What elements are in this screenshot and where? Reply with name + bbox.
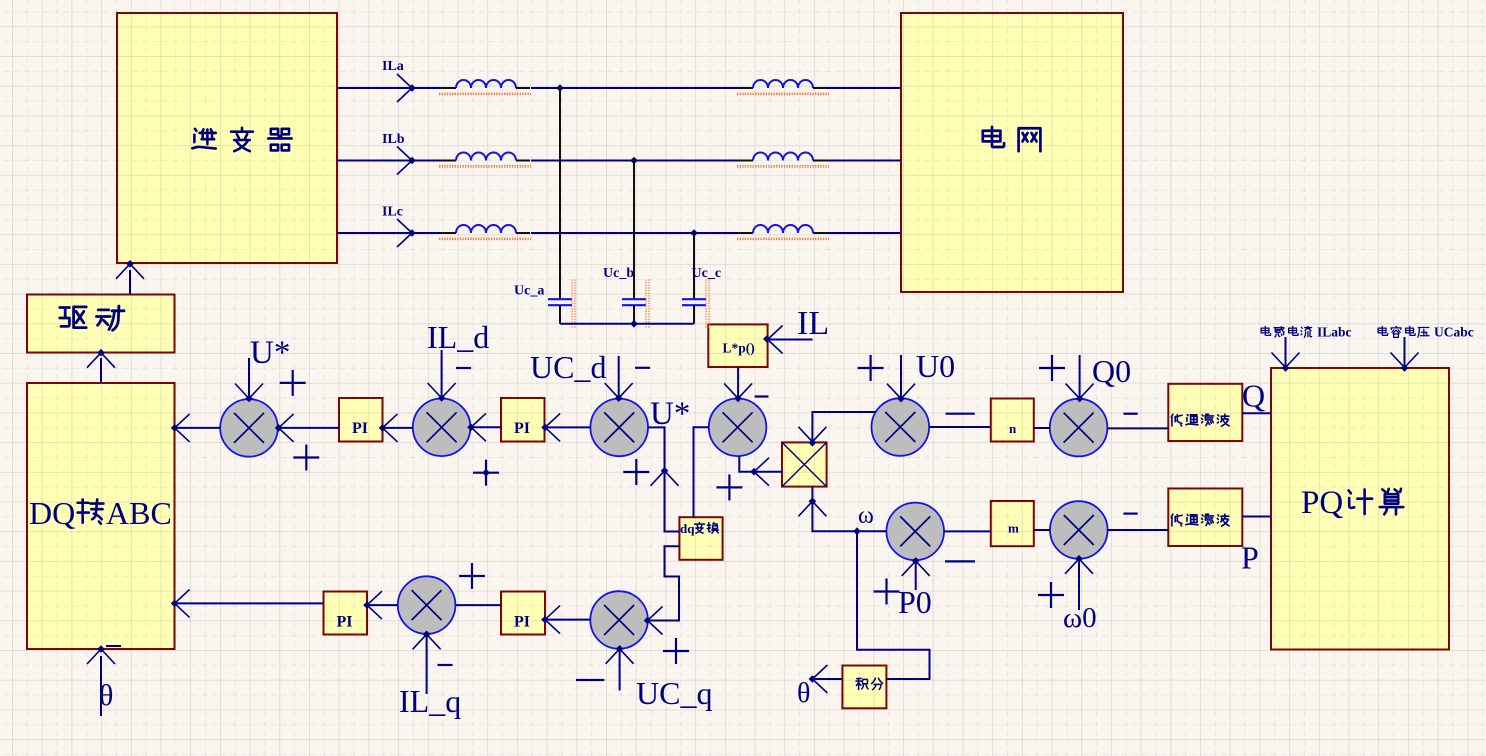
summing junction S7 omega sum <box>886 503 944 561</box>
label inverter text ni-bian-qi <box>192 128 291 151</box>
svg-text:DQ: DQ <box>29 495 75 531</box>
arrow ILabc into PQ <box>1272 353 1300 368</box>
svg-text:dq: dq <box>680 521 695 536</box>
summing junction S2 IL_d sum <box>413 399 471 457</box>
arrow into M1 top <box>798 427 826 442</box>
plus at S4 lower <box>716 474 742 500</box>
inductor LC2 right lead <box>813 232 827 234</box>
summing junction S8 omega0 sum <box>1050 501 1108 559</box>
junction dot S3 top <box>615 394 623 402</box>
junction dot S10 right <box>644 617 652 625</box>
block power grid (dian wang) fill <box>901 13 1123 292</box>
minus at S2 input <box>456 367 471 369</box>
block L*p() derivative border <box>708 324 767 367</box>
junction dot DQ lower input <box>171 600 179 608</box>
wire PQ Q output to low-pass 1 <box>1242 412 1271 414</box>
wire PI2 to S2 <box>470 426 501 428</box>
wire IL_q input to S9 <box>426 635 428 694</box>
svg-text:Q: Q <box>1242 378 1265 414</box>
wire phase B from inverter <box>337 160 412 162</box>
svg-text:ILabc: ILabc <box>1317 325 1352 340</box>
svg-text:Q0: Q0 <box>1092 353 1131 389</box>
inductor LA2 coil <box>753 80 813 88</box>
inductor LA1 right lead <box>516 87 530 89</box>
plus at S5 upper <box>858 355 884 381</box>
junction dot S8 bottom <box>1075 555 1083 563</box>
svg-text:UC_d: UC_d <box>530 349 606 385</box>
minus at S9 input <box>438 664 453 666</box>
wire IL input to L*p() <box>768 339 813 341</box>
arrow into drive <box>87 353 115 368</box>
svg-text:ω0: ω0 <box>1063 602 1097 634</box>
wire S5 to gain n <box>929 426 991 428</box>
label PQ ji-suan glyphs <box>1349 489 1404 514</box>
label drive text qu-dong <box>60 306 124 330</box>
block integrator (ji fen) border <box>842 666 886 709</box>
gain block m border <box>991 501 1034 546</box>
label dq transform bian-huan glyphs <box>694 522 718 533</box>
inductor LC1 left lead <box>440 232 456 234</box>
inductor LA2 orange underline <box>737 92 829 94</box>
minus tick at DQ bottom <box>106 645 121 647</box>
wire capacitor Uc_c top lead <box>693 233 695 299</box>
junction dot omega node <box>853 527 861 535</box>
inductor LA1 left lead <box>440 87 456 89</box>
plus at S1 lower <box>293 445 319 471</box>
junction dot S9 bottom <box>423 631 431 639</box>
gain block PI4 border <box>501 592 545 635</box>
block inverter (ni bian qi) fill <box>117 13 337 263</box>
junction dot phase C capacitor tap <box>690 229 698 237</box>
junction dot S10 bottom <box>616 645 624 653</box>
junction dot M1 bottom <box>809 498 817 506</box>
junction dot DQ upper input <box>171 424 179 432</box>
junction dot S5 top <box>897 395 905 403</box>
label DQ-to-ABC zhuan glyph <box>78 499 104 523</box>
junction dot rail <box>630 320 638 328</box>
arrow into PI2 <box>545 413 560 441</box>
arrow phase B <box>397 147 412 175</box>
inductor LB2 right lead <box>813 160 827 162</box>
wire L*p() output to S4 <box>737 367 739 399</box>
capacitor Uc_b <box>622 299 646 305</box>
wire theta input to DQ-to-ABC <box>100 656 102 716</box>
inductor LA1 orange underline <box>439 92 531 94</box>
summing junction S1 U* sum <box>220 399 278 457</box>
svg-text:ILb: ILb <box>382 132 405 147</box>
inductor LB1 orange underline <box>439 165 531 167</box>
capacitor Uc_a <box>548 299 572 305</box>
wire phase B to grid <box>827 160 901 162</box>
wire U0 input to S5 <box>900 355 902 399</box>
wire S1 output to DQ-to-ABC <box>175 427 221 429</box>
block L*p() derivative fill <box>708 324 767 367</box>
summing junction S9 IL_q sum <box>398 576 456 634</box>
inductor LC2 orange underline <box>737 237 829 239</box>
multiplier block M1 border <box>782 442 827 486</box>
svg-text:U*: U* <box>650 396 690 432</box>
minus at S5 output <box>946 413 975 415</box>
capacitor Uc_a orange mark <box>571 280 573 329</box>
summing junction S4 voltage ref sum <box>709 399 767 457</box>
junction dot drive input <box>97 349 105 357</box>
arrow U* into S1 <box>235 384 263 399</box>
wire capacitor Uc_c bottom lead <box>693 305 695 323</box>
svg-text:PI: PI <box>514 614 530 631</box>
arrow up to S3 <box>651 471 679 486</box>
arrow UC_q into S10 <box>606 649 634 664</box>
svg-text:P0: P0 <box>898 584 932 620</box>
junction dot PQ input 1 <box>1282 364 1290 372</box>
svg-text:n: n <box>1009 421 1017 436</box>
label inductor-current ILabc <box>1261 326 1312 337</box>
minus at S3 input <box>635 367 650 369</box>
block drive (qu dong) border <box>27 295 175 353</box>
gain block PI2 fill <box>501 398 545 442</box>
inductor LB2 left lead <box>738 160 753 162</box>
capacitor Uc_b orange mark <box>645 280 647 329</box>
svg-text:ω: ω <box>858 503 874 529</box>
block low-pass filter 1 fill <box>1168 384 1242 441</box>
arrow into S10 right <box>648 607 663 635</box>
wire DQ-to-ABC to drive <box>100 358 102 383</box>
junction dot L*p() input <box>763 335 771 343</box>
junction dot S2 right <box>467 424 475 432</box>
wire phase C segment <box>412 232 440 234</box>
svg-text:IL_q: IL_q <box>399 683 461 719</box>
minus at S8 input <box>1123 512 1137 514</box>
wire S10 output to PI4 <box>545 619 590 621</box>
wire P0 input to S7 <box>915 561 917 590</box>
plus at S8 lower <box>1038 582 1064 608</box>
svg-text:U0: U0 <box>916 348 955 384</box>
block low-pass filter 2 border <box>1168 489 1242 547</box>
arrow theta into DQ-to-ABC <box>87 649 115 664</box>
junction dot theta output <box>809 675 817 683</box>
wire IL_d input to S2 <box>441 350 443 399</box>
minus at S6 input <box>1123 413 1137 415</box>
arrow into PI4 <box>545 606 560 634</box>
inductor LB1 right lead <box>516 160 530 162</box>
svg-text:θ: θ <box>99 679 113 712</box>
wire capacitor Uc_a bottom lead <box>559 305 561 323</box>
wire phase C to grid <box>827 232 901 234</box>
svg-text:L*p(): L*p() <box>723 341 755 356</box>
arrow M1 output left <box>754 458 769 486</box>
svg-text:U*: U* <box>250 335 290 371</box>
svg-text:Uc_b: Uc_b <box>603 266 634 281</box>
arrow into PI3 <box>367 591 382 619</box>
junction dot at S2 plus <box>482 469 490 477</box>
wire phase C middle <box>531 232 738 234</box>
arrow U0 into S5 <box>887 384 915 399</box>
gain block PI4 fill <box>501 592 545 635</box>
wire phase B middle <box>531 160 738 162</box>
junction dot M1 output <box>750 468 758 476</box>
wire phase B segment <box>412 160 440 162</box>
multiplier M1 X cross <box>782 442 827 486</box>
arrow into DQ-to-ABC upper <box>175 414 190 442</box>
arrow omega up into M1 <box>798 501 826 516</box>
arrow phase C <box>397 219 412 247</box>
wire low-pass 2 to S8 <box>1108 529 1169 531</box>
inductor LB1 coil <box>456 153 516 161</box>
inductor LA1 coil <box>456 80 516 88</box>
svg-text:UC_q: UC_q <box>636 675 712 711</box>
svg-text:Uc_a: Uc_a <box>514 284 544 299</box>
wire capacitor Uc_b top lead <box>633 161 635 300</box>
block PQ calculation fill <box>1271 368 1449 650</box>
summing junction S10 UC_q sum <box>590 591 648 649</box>
wire gain n to S6 <box>1034 427 1050 429</box>
label grid text dian-wang <box>983 127 1041 151</box>
wire S3 output to PI2 <box>545 426 591 428</box>
inductor LC2 left lead <box>738 232 753 234</box>
svg-text:UCabc: UCabc <box>1434 325 1474 340</box>
inductor LB2 coil <box>753 153 813 161</box>
gain block n fill <box>991 399 1034 442</box>
gain block PI3 fill <box>324 592 368 635</box>
block drive (qu dong) fill <box>27 295 175 353</box>
svg-text:IL_d: IL_d <box>427 319 489 355</box>
wire PI1 to S1 <box>278 427 339 429</box>
svg-text:θ: θ <box>797 678 810 709</box>
gain block m fill <box>991 501 1034 546</box>
junction dot phase A capacitor tap <box>556 84 564 92</box>
wire PI4 to S9 <box>455 604 501 606</box>
arrow IL_q into S9 <box>413 634 441 649</box>
wire phase A middle <box>531 87 738 89</box>
arrow IL into L*p() <box>768 326 783 354</box>
arrow Q0 into S6 <box>1066 384 1094 399</box>
plus at S10 right <box>663 638 689 664</box>
wire omega to integrator <box>857 531 930 679</box>
plus at S2 lower <box>473 460 499 486</box>
arrow omega0 into S8 <box>1065 559 1093 574</box>
block PQ calculation border <box>1271 368 1449 650</box>
plus at S7 lower <box>874 579 900 605</box>
junction dot PI2 right <box>541 424 549 432</box>
wire phase A to grid <box>827 87 901 89</box>
arrow IL_d into S2 <box>428 383 456 398</box>
junction dot PI1 right <box>379 424 387 432</box>
inductor LC1 coil <box>456 225 516 233</box>
gain block n border <box>991 399 1034 442</box>
wire dq transform q-output to S10 <box>648 546 680 620</box>
junction dot M1 top <box>809 439 817 447</box>
block integrator (ji fen) fill <box>842 666 886 709</box>
block low-pass filter 1 border <box>1168 384 1242 441</box>
junction dot S7 bottom <box>912 557 920 565</box>
junction dot PQ input 2 <box>1401 364 1409 372</box>
junction dot PI4 right <box>541 616 549 624</box>
wire M1 output to S4 bottom <box>739 456 783 472</box>
wire phase A segment <box>412 87 440 89</box>
wire low-pass 1 to S6 <box>1107 427 1168 429</box>
inductor LC2 coil <box>753 225 813 233</box>
wire PI3 to DQ-to-ABC lower <box>175 602 324 604</box>
wire S5 to multiplier M1 top <box>812 412 876 442</box>
wire S7 to gain m <box>944 530 991 532</box>
multiplier block M1 fill <box>782 442 827 486</box>
svg-text:ILa: ILa <box>382 59 404 74</box>
plus at S6 upper <box>1039 355 1065 381</box>
junction dot theta input <box>97 645 105 653</box>
block DQ-to-ABC converter fill <box>27 383 175 649</box>
label low-pass filter 1 text <box>1171 414 1229 426</box>
wire phase A from inverter <box>337 87 412 89</box>
summing junction S6 Q0 sum <box>1050 399 1108 457</box>
arrow phase A <box>397 74 412 102</box>
wire omega0 input to S8 <box>1078 559 1080 610</box>
svg-text:PI: PI <box>337 614 353 631</box>
wire UC_d input to S3 <box>618 356 620 399</box>
summing junction S5 U0 sum <box>872 398 930 456</box>
junction dot S1 right <box>275 424 283 432</box>
wire S9 output to PI3 <box>367 604 398 606</box>
wire S4 output to dq transform input <box>694 427 709 517</box>
junction dot S1 top <box>245 395 253 403</box>
wire capacitor Uc_a top lead <box>559 88 561 299</box>
wire omega to M1 bottom <box>812 486 886 531</box>
inductor LB1 left lead <box>440 160 456 162</box>
wire capacitor Uc_b bottom lead <box>633 305 635 323</box>
junction dot phase B arrow <box>408 157 416 165</box>
wire UC_q input to S10 <box>619 649 621 690</box>
arrow theta output <box>812 665 827 693</box>
junction dot phase A arrow <box>408 84 416 92</box>
junction dot dq d-branch <box>661 467 669 475</box>
junction dot S6 top <box>1076 395 1084 403</box>
wire integrator output theta <box>812 678 842 680</box>
svg-text:PI: PI <box>514 420 530 437</box>
wire Q0 input to S6 <box>1079 355 1081 399</box>
junction dot phase B capacitor tap <box>630 157 638 165</box>
block dq transform border <box>679 517 722 560</box>
wire PQ P output to low-pass 2 <box>1242 516 1271 518</box>
wire U* input to S1 <box>248 358 250 399</box>
svg-text:ILc: ILc <box>382 205 403 220</box>
arrow UCabc into PQ <box>1391 353 1419 368</box>
minus at S4 input <box>755 395 769 397</box>
label low-pass filter 2 text <box>1171 514 1229 526</box>
inductor LB2 orange underline <box>737 165 829 167</box>
junction dot inverter input <box>126 260 134 268</box>
svg-text:PI: PI <box>352 420 368 437</box>
plus at S1 upper <box>280 370 306 396</box>
wire capacitor common rail <box>560 323 694 325</box>
arrow into S4 top <box>724 383 752 398</box>
block power grid (dian wang) border <box>901 13 1123 292</box>
summing junction S3 UC_d sum <box>590 399 648 457</box>
svg-text:ABC: ABC <box>106 495 172 531</box>
svg-text:m: m <box>1008 521 1019 536</box>
label integrator text <box>856 678 883 690</box>
junction dot S2 top <box>438 394 446 402</box>
svg-text:Uc_c: Uc_c <box>692 266 722 281</box>
wire S2 output to PI1 <box>383 427 413 429</box>
junction dot PI3 right <box>363 601 371 609</box>
label capacitor-voltage UCabc <box>1378 326 1429 337</box>
block dq transform fill <box>679 517 722 560</box>
wire dq transform d-output to S3 <box>648 427 680 531</box>
svg-text:PQ: PQ <box>1301 485 1343 521</box>
wire phase C from inverter <box>337 232 412 234</box>
capacitor Uc_c <box>682 299 706 305</box>
block low-pass filter 2 fill <box>1168 489 1242 547</box>
junction dot S4 top <box>734 395 742 403</box>
arrow into DQ-to-ABC lower <box>175 589 190 617</box>
inductor LC1 orange underline <box>439 237 531 239</box>
minus at S10 input <box>576 679 604 681</box>
inductor LC1 right lead <box>516 232 530 234</box>
capacitor Uc_c orange mark <box>705 280 707 329</box>
arrow into S1 right <box>279 414 294 442</box>
inductor LA2 left lead <box>738 87 753 89</box>
wire gain m to S8 <box>1034 529 1050 531</box>
gain block PI1 border <box>339 398 383 442</box>
svg-text:IL: IL <box>797 305 829 342</box>
wire drive to inverter <box>129 270 131 295</box>
plus at S3 lower <box>623 459 649 485</box>
arrow UC_d into S3 <box>605 383 633 398</box>
minus at S7 input <box>945 560 975 562</box>
plus at S9 upper <box>459 563 485 589</box>
gain block PI3 border <box>324 592 368 635</box>
arrow P0 into S7 <box>902 561 930 576</box>
svg-text:P: P <box>1241 540 1259 576</box>
wire ILabc input to PQ block <box>1285 337 1287 368</box>
wire UCabc input to PQ block <box>1404 337 1406 368</box>
arrow into PI1 <box>383 414 398 442</box>
arrow into inverter <box>116 264 144 279</box>
block DQ-to-ABC converter border <box>27 383 175 649</box>
block inverter (ni bian qi) border <box>117 13 337 263</box>
gain block PI1 fill <box>339 398 383 442</box>
junction dot phase C arrow <box>408 229 416 237</box>
arrow into S2 right <box>471 413 486 441</box>
gain block PI2 border <box>501 398 545 442</box>
inductor LA2 right lead <box>813 87 827 89</box>
